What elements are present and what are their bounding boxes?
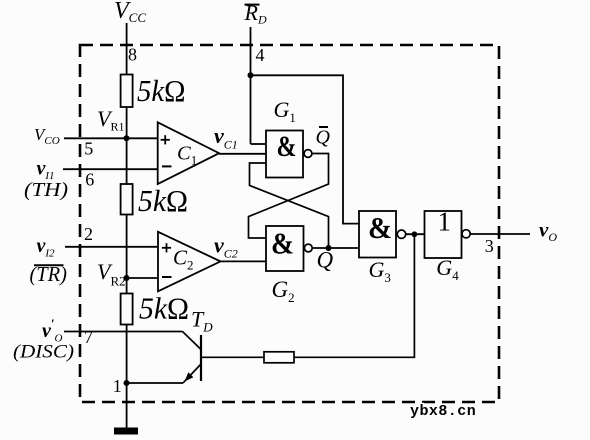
svg-text:1: 1: [113, 376, 122, 396]
wire chain R1 to R2: [126, 107, 128, 184]
gate G1 nand: [266, 130, 312, 177]
transistor TD: [183, 332, 202, 384]
wire chain R2 to R3: [126, 215, 128, 294]
svg-text:2: 2: [84, 224, 93, 244]
node RD branch: [248, 72, 254, 78]
wire pin6 to comparator C1 minus input: [63, 168, 158, 170]
wire resistor to transistor base: [201, 356, 264, 358]
svg-text:8: 8: [128, 45, 137, 65]
gate G3 nand: [359, 210, 406, 258]
wire emitter to pin1 node: [127, 382, 183, 384]
resistor R2 5k: [121, 184, 133, 215]
svg-text:5kΩ: 5kΩ: [138, 183, 188, 218]
wire G2 output cross-couple to G1 input: [250, 163, 329, 248]
ground: [114, 428, 138, 435]
wire G4 output to pin3: [470, 233, 530, 235]
svg-text:5kΩ: 5kΩ: [137, 73, 186, 108]
node VR2 junction: [124, 275, 130, 281]
svg-text:Q: Q: [317, 248, 334, 273]
wire G2 output to G3 input: [312, 247, 359, 249]
wire pin5 to comparator C1 plus input: [64, 137, 158, 139]
wire C2 output to G2: [221, 260, 267, 262]
svg-text:&: &: [277, 130, 297, 163]
wire pin2 to comparator C2 plus input: [65, 246, 158, 248]
label TR-bar: [30, 262, 68, 286]
gate G2 nand: [266, 226, 312, 272]
wire RD branch to G3: [251, 75, 360, 223]
wire C1 output to G1: [219, 153, 266, 155]
IC dashed boundary box: [80, 45, 499, 402]
node Q junction: [326, 245, 332, 251]
op-amp C2 comparator: [158, 232, 221, 291]
svg-text:7: 7: [84, 327, 93, 347]
svg-text:ybx8.cn: ybx8.cn: [410, 403, 476, 420]
label RD-bar: [244, 0, 267, 27]
wire RD vertical into box: [250, 27, 252, 144]
svg-text:(TH): (TH): [24, 179, 68, 201]
svg-text:4: 4: [256, 45, 265, 65]
svg-text:6: 6: [85, 170, 94, 190]
wire G3 output to G4 input: [406, 233, 425, 235]
resistor R1 5k: [121, 75, 133, 108]
svg-text:1: 1: [438, 207, 452, 237]
wire pin7 to transistor collector: [64, 331, 183, 333]
node discharge tap: [412, 231, 418, 237]
wire RD to G1 input: [251, 143, 267, 145]
op-amp C1 comparator: [158, 122, 219, 184]
svg-text:&: &: [368, 210, 392, 245]
wire VR2 to comparator C2 minus input: [127, 277, 159, 279]
resistor base Rb: [264, 352, 294, 363]
label Q-bar: [316, 127, 331, 149]
svg-text:3: 3: [485, 236, 494, 256]
svg-text:5kΩ: 5kΩ: [139, 291, 189, 326]
svg-text:&: &: [271, 226, 294, 261]
wire discharge tap to base resistor: [294, 234, 414, 357]
wire G1 output cross-couple to G2 input: [249, 154, 329, 239]
svg-text:(DISC): (DISC): [13, 342, 74, 363]
wire chain R3 to ground: [126, 325, 128, 429]
node pin1 junction: [124, 380, 130, 386]
node VR1 junction: [124, 135, 130, 141]
svg-text:Q: Q: [316, 127, 331, 149]
svg-text:5: 5: [84, 139, 93, 159]
resistor R3 5k: [121, 294, 133, 325]
wire VCC to resistor chain: [126, 23, 128, 75]
gate G4 buffer: [425, 207, 471, 259]
